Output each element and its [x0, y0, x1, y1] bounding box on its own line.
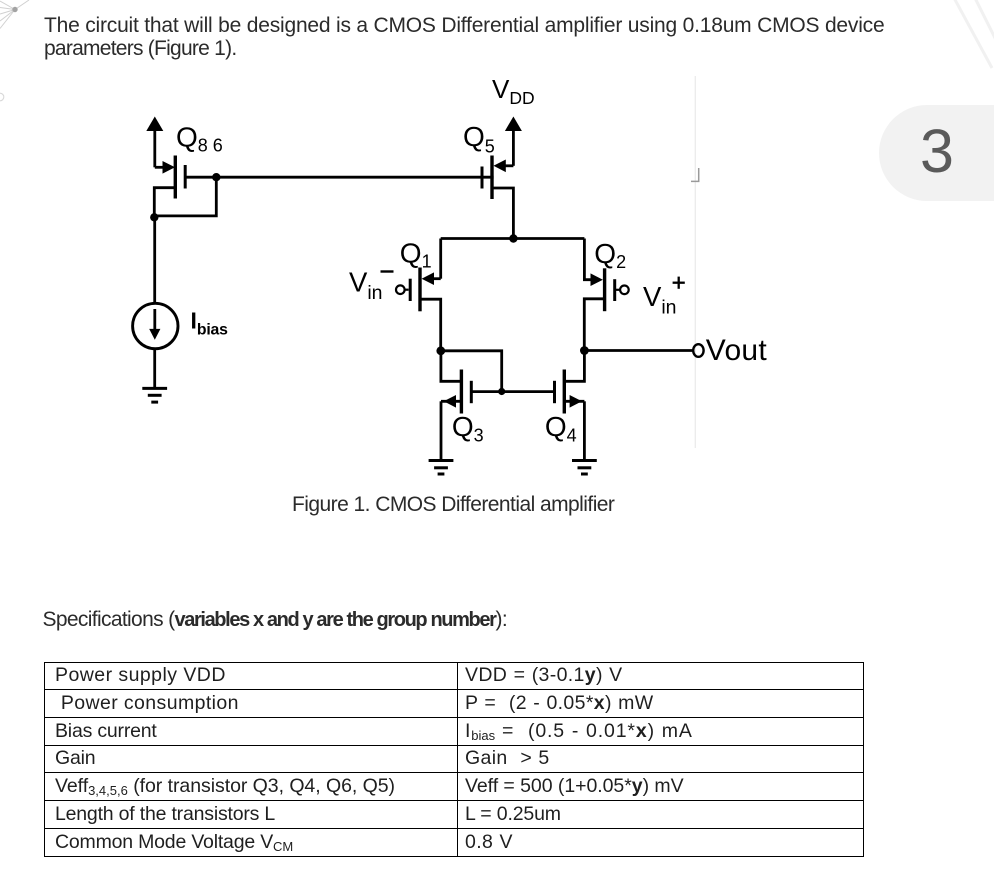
junction dot drain Q5 [509, 234, 517, 242]
page number badge [879, 105, 994, 201]
junction dot Q1 source / Q3 drain [436, 346, 445, 355]
junction dot Q8 drain [150, 213, 158, 221]
svg-text:Q8 6: Q8 6 [176, 121, 223, 155]
wire Q2 source [584, 299, 604, 351]
wire drain node to current source [153, 217, 156, 303]
current source Ibias [133, 303, 178, 348]
input bubble Q2 [616, 286, 629, 295]
wire top rail [441, 237, 585, 240]
figure corner mark [691, 168, 699, 181]
input bubble Q1 [396, 285, 409, 294]
ground (Q3) [429, 461, 454, 475]
VDD arrow Q8 [146, 117, 163, 168]
wire Q8 drain [154, 188, 175, 218]
wire Q3 drain [441, 351, 462, 382]
wire to Vout [584, 349, 693, 352]
source arrow Q5 [494, 160, 514, 173]
wire node A to Q5 gate [216, 176, 493, 179]
figure caption [292, 493, 614, 517]
source arrow Q8 [155, 161, 175, 174]
transistor Q5 [482, 156, 492, 200]
wire gate-drain feedback Q8 [154, 177, 216, 216]
VDD arrow Q5 [505, 117, 522, 166]
wire Q4 drain [564, 351, 584, 382]
ground (Ibias) [142, 388, 167, 402]
wire mirror gate link [441, 351, 502, 392]
wire Q1 drain [439, 239, 442, 279]
wire Q3 source to ground [440, 401, 443, 460]
specifications heading [43, 608, 508, 632]
Vout terminal bubble [693, 344, 703, 357]
wire Q3 gate to dot [471, 390, 501, 393]
junction dot mirror gate [498, 388, 505, 395]
svg-text:Q5: Q5 [463, 121, 495, 156]
source arrow Q4 [564, 395, 584, 408]
svg-text:Vout: Vout [706, 334, 768, 367]
ground (Q4) [572, 461, 597, 475]
svg-text:Q2: Q2 [594, 238, 626, 272]
transistor Q8/6 [175, 156, 185, 199]
svg-text:Ibias: Ibias [191, 308, 229, 339]
source arrow Q1 [422, 272, 441, 285]
svg-text:Vin: Vin [349, 267, 383, 304]
transistor Q2 [605, 268, 615, 311]
svg-text:Q4: Q4 [545, 411, 577, 446]
minus sign of Vin- [381, 270, 394, 272]
transistor Q3 [461, 370, 471, 414]
wire Q2 drain [584, 239, 591, 280]
wire Q5 drain [492, 188, 513, 239]
wire Q8 gate to node A [187, 176, 217, 179]
plus sign of Vin+ [673, 277, 685, 289]
wire gate dot to Q4 gate [502, 390, 555, 393]
wire Q1 source [420, 299, 441, 351]
svg-text:Q3: Q3 [452, 411, 484, 446]
transistor Q1 [410, 268, 420, 312]
transistor Q4 [555, 370, 565, 414]
svg-text:VDD: VDD [492, 74, 535, 108]
source arrow Q3 [441, 395, 461, 408]
wire Q4 source to ground [583, 401, 586, 460]
svg-text:Q1: Q1 [400, 237, 432, 271]
svg-text:Vin: Vin [643, 281, 677, 318]
paragraph [44, 14, 919, 61]
specifications table [44, 662, 864, 857]
source arrow Q2 [591, 273, 603, 286]
wire current source to ground [153, 349, 156, 389]
junction dot Q2 source / Q4 drain [580, 346, 589, 355]
node A junction dot [212, 173, 220, 181]
figure edge faint line [694, 76, 696, 448]
